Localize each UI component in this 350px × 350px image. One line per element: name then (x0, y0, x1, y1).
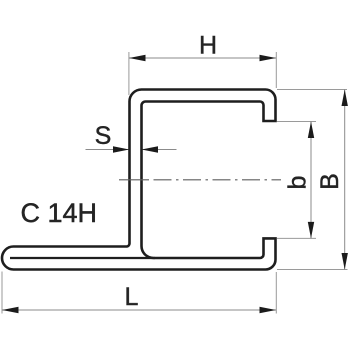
dimension L arrow right (260, 307, 277, 313)
dimension H arrow right (260, 55, 277, 61)
svg-text:b: b (284, 176, 312, 190)
dimension B label (316, 173, 344, 190)
dimension S line right segment (142, 149, 177, 151)
dimension B line (344, 90, 346, 270)
dimension S arrow left (113, 146, 130, 153)
dimension b arrow bottom (308, 222, 314, 239)
dimension b label (284, 176, 312, 190)
dimension B extension line bottom (277, 269, 348, 271)
svg-text:H: H (199, 32, 217, 60)
dimension S arrow right (142, 146, 159, 153)
dimension L label (125, 283, 139, 311)
svg-text:L: L (125, 283, 139, 311)
dimension S line left segment (86, 149, 130, 151)
dimension L extension line left (1, 272, 3, 314)
dimension L line (2, 309, 276, 311)
profile C 14H sheet outline (2, 90, 276, 270)
profile name label C 14H (21, 198, 98, 228)
dimension H extension line left (128, 52, 130, 95)
dimension B arrow top (342, 90, 348, 107)
dimension H line (129, 57, 276, 59)
dimension b extension line top (277, 121, 316, 123)
svg-text:B: B (316, 173, 344, 190)
dimension H label (199, 32, 217, 60)
dimension H extension line right (275, 52, 277, 88)
centerline (dash-dot axis) (119, 179, 281, 181)
dimension b line (310, 122, 312, 239)
contact line between folded layers (10, 257, 155, 259)
dimension B extension line top (277, 89, 347, 91)
dimension H arrow left (129, 55, 146, 61)
dimension L arrow left (2, 307, 19, 313)
dimension L extension line right (275, 272, 277, 314)
dimension b extension line bottom (277, 237, 316, 239)
svg-text:C 14H: C 14H (21, 198, 98, 228)
dimension B arrow bottom (342, 253, 348, 270)
svg-text:S: S (95, 122, 112, 150)
dimension b arrow top (308, 122, 314, 139)
dimension S label (95, 122, 112, 150)
